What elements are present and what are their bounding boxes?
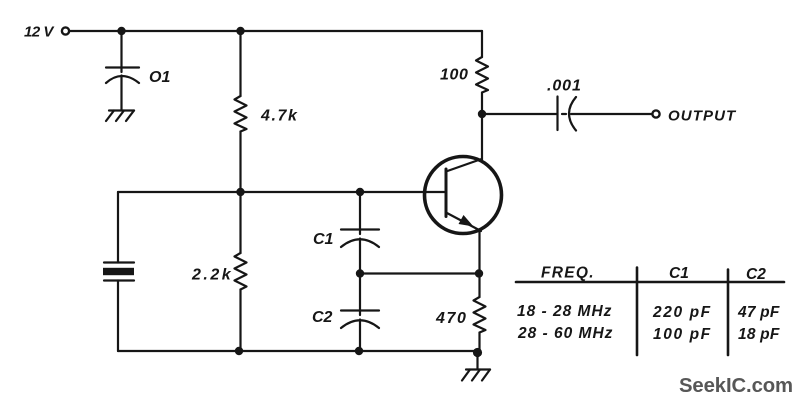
node junction mid C1	[356, 188, 364, 196]
capacitor C1	[341, 228, 379, 230]
crystal Y1	[104, 261, 134, 263]
wire C1C2 tap to emitter	[360, 272, 479, 274]
svg-text:4.7k: 4.7k	[260, 108, 299, 125]
wire 470 to ground node	[478, 333, 480, 353]
svg-text:470: 470	[435, 310, 468, 327]
capacitor O1	[106, 66, 139, 68]
wire output left	[482, 113, 558, 115]
wire 4.7k branch top	[239, 31, 241, 96]
node 12V supply terminal	[62, 27, 69, 34]
node junction C1-C2	[356, 269, 364, 277]
resistor R 2.2k	[235, 253, 247, 290]
svg-text:28 - 60 MHz: 28 - 60 MHz	[517, 325, 613, 342]
wire left vertical to crystal	[117, 192, 119, 263]
svg-text:SeekIC.com: SeekIC.com	[679, 375, 793, 397]
svg-text:C2: C2	[746, 266, 766, 283]
wire 2.2k to bottom rail	[239, 290, 241, 352]
svg-text:47 pF: 47 pF	[737, 304, 780, 321]
capacitor C2	[341, 309, 379, 311]
node junction collector/output	[478, 110, 486, 118]
wire bypass-cap branch	[120, 31, 122, 67]
wire 2.2k branch	[239, 192, 241, 253]
resistor R 470	[474, 297, 486, 333]
wire top rail	[70, 30, 482, 32]
node junction emitter/470	[475, 269, 483, 277]
svg-text:.001: .001	[547, 78, 582, 95]
wire C2 branch	[359, 274, 361, 311]
wire bottom rail	[118, 351, 478, 353]
node junction top-left	[117, 27, 125, 35]
node OUTPUT terminal	[652, 110, 659, 117]
svg-text:C1: C1	[669, 265, 689, 282]
wire mid rail (base wire)	[118, 191, 446, 193]
svg-text:100: 100	[440, 67, 469, 84]
table header rule	[516, 281, 784, 284]
ground (emitter)	[466, 368, 490, 370]
table column rule 2	[727, 270, 730, 356]
svg-text:18 pF: 18 pF	[738, 326, 780, 343]
resistor R 100	[476, 57, 488, 93]
svg-text:2.2k: 2.2k	[191, 267, 233, 284]
svg-text:12 V: 12 V	[24, 24, 55, 41]
wire crystal to bottom rail	[117, 281, 119, 352]
transistor Q1	[425, 157, 502, 234]
wire collector into transistor	[481, 114, 483, 160]
table column rule 1	[636, 268, 639, 356]
svg-text:OUTPUT: OUTPUT	[668, 108, 737, 125]
node junction top 4.7k	[236, 27, 244, 35]
node junction bottom C2	[355, 347, 363, 355]
svg-text:18 - 28 MHz: 18 - 28 MHz	[517, 303, 612, 320]
node junction mid 4.7k/2.2k	[236, 188, 244, 196]
svg-text:O1: O1	[149, 69, 170, 86]
wire output right	[571, 113, 652, 115]
ground (bypass cap)	[109, 109, 134, 111]
svg-text:FREQ.: FREQ.	[541, 265, 595, 282]
node junction bottom emitter ground	[473, 348, 482, 357]
wire C1 branch	[359, 192, 361, 230]
svg-text:C1: C1	[313, 231, 334, 248]
wire emitter to 470	[478, 274, 480, 298]
svg-text:100 pF: 100 pF	[653, 326, 712, 343]
wire emitter down	[478, 232, 480, 274]
wire collector branch from rail	[481, 31, 483, 57]
resistor R 4.7k	[235, 96, 247, 132]
capacitor .001	[556, 97, 558, 131]
wire ground stub	[476, 353, 478, 370]
svg-text:C2: C2	[312, 309, 333, 326]
wire 4.7k to mid rail	[239, 132, 241, 193]
node junction bottom 2.2k	[235, 347, 243, 355]
wire 100 to collector node	[481, 93, 483, 115]
svg-text:220 pF: 220 pF	[652, 304, 712, 321]
